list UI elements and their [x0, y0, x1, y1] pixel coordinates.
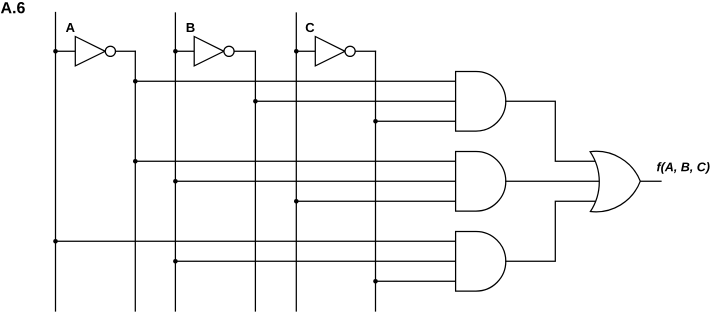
junction (C to inverter C) — [294, 49, 299, 54]
wire (NOT-A to AND2 input 1) — [135, 160, 455, 162]
junction (B to inverter B) — [173, 49, 178, 54]
wire (NOT-B to AND1 input 2) — [255, 100, 455, 102]
label f(A, B, C) (output) — [657, 162, 710, 174]
wire (AND3 output to OR input 3) — [506, 201, 595, 261]
wire (OR output f) — [640, 180, 661, 182]
wire (inverter B input from rail B) — [175, 50, 194, 52]
junction (A tap AND3) — [53, 239, 58, 244]
label B (input B) — [187, 23, 195, 32]
junction (B tap AND2) — [173, 179, 178, 184]
junction (C tap AND2) — [294, 199, 299, 204]
junction (B tap AND3) — [173, 259, 178, 264]
node A (input rail A) — [55, 13, 57, 312]
AND gate U5 — [456, 152, 506, 212]
wire (inverter B output) — [234, 50, 255, 52]
wire (inverter A output) — [116, 50, 136, 52]
wire (inverter A input from rail A) — [56, 50, 76, 52]
inverter U3 (NOT C) — [315, 37, 355, 66]
wire (inverter C input from rail C) — [296, 50, 315, 52]
wire (NOT-C to AND1 input 3) — [376, 120, 456, 122]
OR gate U7 — [590, 151, 640, 212]
wire (B to AND2 input 2) — [175, 180, 455, 182]
wire (B to AND3 input 2) — [175, 260, 455, 262]
inverter U2 (NOT B) — [194, 37, 234, 66]
junction (NOT-A tap AND1) — [133, 79, 138, 84]
wire (inverter C output) — [355, 50, 375, 52]
wire (A to AND3 input 1) — [56, 240, 456, 242]
junction (NOT-B tap AND1) — [253, 99, 258, 104]
node NOT-C (rail) — [375, 51, 377, 311]
node NOT-A (rail) — [134, 51, 136, 311]
node NOT-B (rail) — [254, 51, 256, 311]
junction (NOT-C tap AND3) — [373, 279, 378, 284]
label A (input A) — [66, 23, 75, 32]
inverter U1 (NOT A) — [75, 37, 115, 66]
AND gate U6 — [456, 232, 506, 292]
node B (input rail B) — [174, 13, 176, 311]
wire (AND1 output to OR input 1) — [506, 101, 595, 161]
label C (input C) — [306, 23, 315, 32]
wire (C to AND2 input 3) — [296, 200, 455, 202]
label A.6 (figure number) — [1, 2, 25, 13]
wire (NOT-C to AND3 input 3) — [376, 280, 456, 282]
junction (NOT-A tap AND2) — [133, 159, 138, 164]
node C (input rail C) — [295, 13, 297, 311]
junction (NOT-C tap AND1) — [373, 119, 378, 124]
wire (NOT-A to AND1 input 1) — [135, 80, 455, 82]
junction (A to inverter A) — [53, 49, 58, 54]
AND gate U4 — [456, 72, 506, 132]
wire (AND2 output to OR input 2) — [506, 180, 600, 182]
